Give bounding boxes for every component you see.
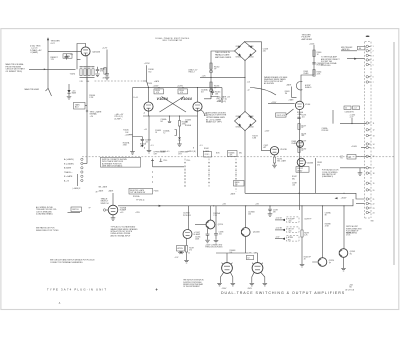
svg-text:V1044: V1044 (181, 96, 193, 101)
resistor R1044B chain (163, 116, 188, 137)
node grid bias labels (115, 113, 125, 121)
wire curve to pickoff (250, 88, 276, 96)
svg-text:CR1054: CR1054 (248, 57, 254, 59)
potentiometer R1066B (228, 151, 238, 157)
svg-text:470: 470 (189, 250, 192, 252)
terminal pin 1 (366, 45, 374, 48)
svg-text:+6: +6 (143, 112, 145, 114)
wire bus to terminal 2 (83, 163, 87, 165)
node T1036 label (147, 80, 159, 85)
ground output B right (261, 272, 267, 286)
svg-text:V1064: V1064 (305, 104, 310, 106)
resistor 175 label (51, 57, 59, 61)
node grid bias small labels (134, 97, 139, 99)
node B gate note (217, 95, 231, 103)
wire cathode curve right (201, 110, 209, 117)
terminal pin 21 (366, 198, 374, 201)
node C1085 label (322, 127, 329, 132)
ground R1045 (130, 152, 135, 155)
wire output header (216, 252, 249, 254)
wire multivib plate bus (133, 87, 223, 88)
terminal A GATE (64, 167, 83, 170)
svg-text:C1076: C1076 (301, 115, 306, 117)
switch wafer column 3 (208, 159, 211, 189)
svg-text:R1078: R1078 (301, 133, 306, 135)
svg-text:C1046B: C1046B (155, 130, 161, 132)
node R1082 label (292, 141, 297, 145)
node C1079 label (298, 140, 306, 144)
svg-text:20: 20 (373, 190, 375, 192)
switch box delay (296, 167, 309, 173)
svg-text:OF SWEEP TRIG): OF SWEEP TRIG) (6, 71, 23, 73)
node typical voltages note (111, 226, 139, 238)
svg-text:5: 5 (373, 64, 374, 66)
svg-text:R1063: R1063 (285, 91, 290, 93)
svg-text:DET CH: DET CH (288, 228, 295, 230)
node rev date stamp (346, 284, 355, 291)
svg-text:TB3: TB3 (371, 221, 374, 223)
svg-text:B: B (193, 148, 194, 150)
capacitor C1043 (201, 88, 220, 95)
svg-text:DUAL-TRACE SWITCHING & OUTPUT: DUAL-TRACE SWITCHING & OUTPUT AMPLIFIERS (221, 291, 345, 295)
svg-text:+125V: +125V (144, 63, 151, 65)
resistor R1097 (185, 238, 194, 252)
svg-text:(COAX AND BRAID): (COAX AND BRAID) (36, 213, 53, 216)
svg-text:TP (94.1): TP (94.1) (136, 200, 145, 202)
svg-text:2.2K: 2.2K (89, 97, 94, 99)
svg-text:P1090: P1090 (154, 191, 159, 193)
wire bridge lower drop (245, 61, 250, 112)
terminal B GATE (64, 175, 83, 178)
svg-text:TYPE 3A74 PLUG-IN UNIT: TYPE 3A74 PLUG-IN UNIT (47, 287, 107, 291)
svg-text:24: 24 (373, 212, 375, 214)
ground R1099 (300, 264, 305, 267)
ground Q1343 (341, 257, 346, 271)
svg-text:2: 2 (373, 51, 374, 53)
node R1047A 270K label (123, 141, 130, 146)
terminal pin 11 (366, 122, 374, 125)
svg-text:SEL: SEL (348, 157, 351, 159)
svg-text:R1082: R1082 (292, 141, 297, 143)
resistor SEL boxed (341, 155, 367, 160)
svg-text:C1098: C1098 (273, 209, 278, 211)
node free run note (189, 68, 199, 73)
terminal TP left of tube (103, 209, 108, 211)
svg-text:22: 22 (373, 203, 375, 205)
transistor Q1214 (206, 206, 223, 229)
capacitor 0.001 (100, 68, 109, 76)
node plus mark caption (156, 288, 158, 290)
node +GA TRIG note (30, 44, 42, 54)
svg-text:ADJ: ADJ (75, 106, 78, 109)
terminal B +GATE (64, 162, 83, 165)
svg-text:INSTRUMENT): INSTRUMENT) (346, 233, 357, 235)
resistor R1060 (313, 50, 322, 57)
node C1095B label (183, 213, 192, 217)
capacitor C1044A stub (161, 116, 172, 123)
svg-text:J44: J44 (359, 48, 362, 50)
svg-text:AS SHOWN: AS SHOWN (264, 82, 274, 85)
terminal pin 22 (366, 202, 374, 205)
node pot area labels (204, 148, 242, 155)
svg-text:220: 220 (263, 50, 266, 52)
node R1087 label (292, 176, 297, 180)
node +12V feed (102, 48, 108, 74)
resistor box R1075 (276, 109, 294, 117)
wire bridge left arm (211, 51, 235, 99)
node R1098B label (325, 223, 331, 227)
svg-text:TRACE +: TRACE + (64, 171, 73, 174)
svg-text:R1080: R1080 (301, 148, 306, 150)
svg-text:+100: +100 (288, 231, 292, 233)
svg-text:+6.9: +6.9 (120, 212, 124, 214)
wire plate aux rail (315, 158, 317, 193)
resistor R1011 (80, 69, 82, 76)
wire cross coupling 1 (162, 97, 187, 113)
node vertical unit plug note (346, 225, 362, 234)
node +65 switch label (164, 160, 191, 162)
ground under R1097 (184, 260, 189, 263)
terminal pin 16 (366, 155, 374, 158)
svg-text:21: 21 (373, 199, 375, 201)
ground R1044B (177, 144, 182, 147)
svg-text:SEL: SEL (292, 178, 295, 180)
wire main vertical bus (86, 55, 88, 164)
svg-text:C1072: C1072 (264, 145, 269, 147)
capacitor C1098 001 (214, 206, 223, 240)
node R1083 label (317, 162, 322, 166)
svg-text:14: 14 (373, 144, 375, 146)
node MAIN TRIG SIGNAL note (6, 63, 26, 73)
svg-text:CR1063: CR1063 (236, 126, 242, 128)
terminal pin 24 (366, 211, 374, 214)
svg-text:+100V: +100V (351, 146, 358, 148)
svg-text:+12V: +12V (102, 48, 108, 50)
terminal pin 14 (366, 143, 374, 146)
diode bridge lower (235, 111, 257, 131)
node TRACE SELECT label (101, 197, 110, 205)
svg-text:7.2: 7.2 (163, 133, 165, 135)
svg-text:A (+GATE): A (+GATE) (64, 158, 74, 161)
svg-text:15: 15 (373, 147, 375, 149)
node R1324 label (304, 256, 311, 260)
svg-text:PULL: PULL (164, 160, 168, 162)
svg-text:T1036: T1036 (147, 83, 152, 85)
node +GATE grid labels (285, 71, 309, 101)
svg-text:R1066B: R1066B (229, 152, 235, 154)
node P1090 mark (98, 189, 113, 192)
terminal A B (64, 179, 83, 182)
svg-text:R1324 TP: R1324 TP (304, 256, 311, 258)
svg-text:R1077: R1077 (301, 125, 306, 127)
capacitor C1013 (96, 67, 105, 73)
svg-text:SWITCH: SWITCH (72, 209, 79, 211)
svg-text:C1046B: C1046B (145, 140, 151, 142)
node +12V multivib (125, 135, 133, 137)
svg-text:+364: +364 (349, 284, 353, 286)
node pickoff row 1 (275, 217, 299, 223)
wire dashed link cluster to multivib (86, 80, 148, 87)
ground at C1013 (95, 74, 100, 77)
node right gate label (160, 150, 209, 153)
svg-text:+LINE: +LINE (297, 114, 301, 116)
svg-text:R1034: R1034 (155, 90, 160, 92)
node sel gate note left (99, 186, 108, 189)
node SEL GATE label (247, 251, 258, 259)
terminal A +GATE (64, 158, 83, 161)
svg-text:+1.5: +1.5 (151, 145, 154, 147)
node R1090 label (230, 181, 244, 196)
wire gate stub row (204, 96, 218, 99)
svg-text:+GATE: +GATE (64, 55, 71, 58)
node MAIN TRIGGER label (25, 88, 49, 91)
wire divider bottoms (80, 77, 95, 80)
svg-text:SEMICONDUCTOR TYPES: SEMICONDUCTOR TYPES (36, 230, 59, 232)
svg-text:MAIN TRIGGER: MAIN TRIGGER (25, 88, 40, 91)
svg-text:R1064: R1064 (317, 72, 322, 74)
wire bus B (245, 193, 365, 199)
wire cross coupling 2 (160, 97, 185, 113)
node R1073 label (252, 136, 257, 140)
terminal pin 7 (366, 81, 374, 84)
svg-text:MULTIVIBRATOR: MULTIVIBRATOR (163, 39, 183, 42)
node diode note upper (215, 52, 232, 59)
node +300V label (335, 197, 348, 199)
terminal pin 18 (366, 172, 374, 175)
svg-text:+15V ZX: +15V ZX (276, 218, 283, 220)
svg-text:16: 16 (373, 156, 375, 158)
node C1046B label (155, 130, 161, 134)
boxed caution note (101, 157, 141, 167)
svg-text:THRU DECOUPLING: THRU DECOUPLING (205, 247, 223, 249)
node C1094B label (248, 211, 255, 215)
node cluster values (80, 81, 90, 83)
transistor Q1224 (241, 206, 260, 237)
resistor R1034 47K (154, 89, 164, 94)
node schematic title multivibrator (155, 37, 189, 42)
svg-text:+REF (2+3): +REF (2+3) (217, 101, 227, 103)
svg-text:3: 3 (373, 55, 374, 57)
svg-text:6: 6 (373, 77, 374, 79)
node cathode tick A (144, 145, 154, 149)
tube V1097 (183, 206, 201, 239)
wire schematic right border (393, 42, 395, 265)
wire multivib left rail (132, 88, 134, 112)
node page mark (366, 36, 370, 38)
wire bridge lower to bus (244, 131, 246, 194)
resistor R1013 (88, 69, 90, 76)
wire pickoff rail (301, 45, 314, 102)
svg-text:C1099 TP: C1099 TP (304, 219, 311, 221)
svg-text:+65: +65 (145, 142, 148, 144)
tube V1084B heavy (297, 158, 314, 166)
terminal pin 13 (366, 134, 374, 137)
node color code note (322, 169, 339, 179)
capacitor C1098 MD (268, 206, 278, 214)
wire terminal bracket (77, 174, 79, 186)
svg-text:INTERCONNECTING: INTERCONNECTING (346, 228, 362, 230)
connector strip body (365, 42, 371, 218)
resistor R1012 (84, 69, 86, 76)
svg-text:C4: C4 (345, 108, 347, 110)
diode D1080 (67, 84, 76, 96)
resistor R1045 (123, 112, 132, 151)
svg-text:+100: +100 (288, 221, 292, 223)
resistor R1044 47K (178, 89, 188, 94)
svg-text:100: 100 (248, 214, 251, 216)
wire trigger-out vertical (48, 39, 52, 97)
node C1089 label (292, 182, 297, 186)
svg-text:.001: .001 (292, 185, 295, 187)
transistor Q1324 (312, 206, 334, 267)
node TRIGGER OUT label (51, 41, 61, 45)
node pickoff row 3 (275, 236, 299, 242)
wire main trig input (29, 68, 76, 70)
resistor chain R1099 (301, 206, 311, 264)
wire Q1214 base (195, 224, 206, 226)
svg-text:1: 1 (373, 46, 374, 48)
resistor R1080 (298, 147, 306, 153)
svg-text:+125V: +125V (271, 102, 277, 104)
svg-text:SEL: SEL (288, 239, 291, 241)
diode CR1044 (178, 137, 181, 143)
node divider cluster top row (80, 66, 95, 67)
potentiometer GAIN ADJ box (74, 102, 88, 109)
svg-text:+C1092: +C1092 (350, 114, 356, 116)
tube V1254 output B (252, 253, 263, 273)
svg-text:6.8: 6.8 (201, 91, 204, 93)
svg-text:746: 746 (349, 287, 352, 289)
capacitor C1046B (133, 137, 151, 148)
node pickoff row 2 (275, 227, 299, 233)
switch wafer column 2 (184, 159, 187, 189)
terminal pin 20 (366, 189, 374, 192)
resistor R1014 (92, 69, 94, 76)
svg-text:750: 750 (148, 71, 151, 73)
terminal pin 3 (366, 54, 374, 57)
svg-text:PICKOFF: PICKOFF (288, 218, 295, 220)
svg-text:OF THE INSTRUMENT: OF THE INSTRUMENT (183, 286, 200, 288)
svg-text:+4.5: +4.5 (144, 129, 147, 131)
wire pin ticks (368, 46, 370, 212)
svg-text:R1087: R1087 (292, 176, 297, 178)
svg-text:R1083: R1083 (317, 162, 322, 164)
svg-text:BEAM CUT OFF): BEAM CUT OFF) (206, 121, 222, 124)
node R1046B label (230, 250, 236, 254)
node trigger pickoff title (302, 34, 313, 41)
ground under V1094A (111, 218, 116, 221)
node R1040 label (89, 95, 96, 99)
svg-text:SEL: SEL (239, 152, 242, 154)
tube V1094A (108, 193, 127, 217)
svg-text:V1034: V1034 (157, 96, 169, 101)
node R1095A label (213, 212, 220, 217)
node trig signal terminal (86, 110, 102, 118)
svg-text:+125V: +125V (153, 86, 160, 88)
terminal pin 2 (366, 50, 374, 53)
resistor R1064 (313, 70, 322, 77)
node cathode tick B (193, 145, 203, 149)
tube V1044 section (193, 88, 202, 112)
resistor R1076 (273, 155, 285, 165)
switch box 168 (63, 54, 72, 58)
svg-text:EL: EL (350, 253, 352, 255)
svg-text:R1075 4.7K: R1075 4.7K (277, 115, 286, 117)
node +125V multivib feed (144, 63, 154, 81)
ground output B left (250, 272, 255, 286)
node UPPER BEAM label (154, 150, 166, 155)
node C1049B label (185, 120, 192, 128)
svg-text:17: 17 (373, 168, 375, 170)
svg-text:-150V: -150V (247, 288, 253, 290)
node R1078 label (301, 133, 306, 137)
ground at 0.001 cap (105, 77, 110, 80)
svg-text:A +REF +: A +REF + (115, 117, 123, 120)
terminal TRACE (64, 171, 83, 174)
svg-text:1N4152: 1N4152 (297, 168, 303, 170)
diode X C1096 (178, 251, 190, 260)
diode bridge upper (235, 41, 257, 61)
node bridge1 diode labels (236, 46, 254, 59)
svg-text:B +GATE: B +GATE (64, 175, 73, 178)
wire cathode header (143, 115, 198, 116)
svg-text:+0.6: +0.6 (247, 82, 250, 84)
wire main output bus (118, 199, 353, 206)
switch wafer column 1 (151, 159, 184, 183)
node C1099A label (325, 211, 332, 216)
svg-text:+125: +125 (202, 75, 206, 77)
svg-text:C1049B: C1049B (185, 120, 191, 122)
svg-text:COUPLING: COUPLING (321, 65, 331, 67)
ground near strip (358, 168, 363, 176)
node waveform note (264, 76, 288, 85)
ground C1098 (214, 240, 219, 243)
node C1072 label (264, 145, 269, 149)
svg-text:THE SWITCH IS SHOWN IN: THE SWITCH IS SHOWN IN (183, 280, 204, 282)
svg-text:49: 49 (96, 191, 98, 193)
node switch position note (183, 280, 204, 288)
svg-text:SWITCH: SWITCH (101, 203, 109, 205)
node +100V decoupling note (205, 244, 223, 248)
svg-text:+12: +12 (247, 89, 250, 91)
node C1095A label (135, 212, 141, 214)
svg-text:+1.5: +1.5 (200, 145, 203, 147)
node V1064 plate labels (297, 111, 304, 116)
svg-text:4: 4 (373, 60, 374, 62)
svg-text:R1097: R1097 (189, 248, 194, 250)
wire bridge top corner (245, 42, 262, 151)
svg-text:R1060: R1060 (317, 52, 322, 54)
capacitor C at grid (65, 54, 74, 60)
diode to connector (347, 58, 365, 60)
node switch note box bottom (129, 188, 159, 198)
node TP 94.1 label (136, 200, 162, 207)
ground R1044A (147, 150, 152, 153)
ground output A left (217, 272, 223, 286)
svg-text:B (+GATE): B (+GATE) (64, 162, 74, 165)
node TO VERTICAL note (321, 56, 340, 67)
wire to pin 17 (340, 167, 366, 169)
tube V1084A (297, 141, 304, 148)
svg-text:SEL: SEL (301, 135, 304, 137)
svg-text:R1090: R1090 (235, 182, 240, 184)
svg-text:23: 23 (373, 208, 375, 210)
svg-text:TP: TP (89, 207, 91, 209)
node LOWER BEAM label (178, 151, 188, 155)
svg-text:AND NO SIGNAL INPUT: AND NO SIGNAL INPUT (111, 234, 132, 237)
svg-text:.001: .001 (301, 116, 304, 118)
switch wafer column 4 (235, 159, 238, 193)
